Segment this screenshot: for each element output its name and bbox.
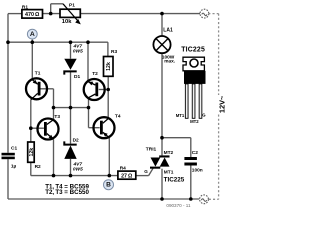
svg-text:R2: R2 (35, 164, 41, 170)
svg-text:1µ: 1µ (11, 164, 17, 170)
svg-text:0W5: 0W5 (73, 48, 83, 54)
svg-text:T3: T3 (54, 114, 60, 120)
svg-text:090370 - 11: 090370 - 11 (166, 203, 191, 208)
svg-text:MT1: MT1 (176, 113, 185, 118)
svg-text:R3: R3 (111, 49, 117, 55)
svg-text:R4: R4 (120, 165, 126, 171)
svg-text:G: G (144, 169, 148, 174)
svg-text:D2: D2 (73, 137, 79, 143)
svg-text:A: A (30, 31, 35, 38)
svg-text:C1: C1 (11, 145, 17, 151)
svg-text:T1: T1 (35, 71, 41, 77)
svg-text:470 Ω: 470 Ω (25, 12, 40, 18)
svg-text:T2: T2 (92, 71, 98, 77)
svg-text:0W5: 0W5 (73, 166, 83, 172)
svg-text:MT1: MT1 (164, 170, 174, 176)
svg-text:T4: T4 (115, 114, 121, 120)
svg-text:D1: D1 (74, 74, 80, 80)
svg-text:12k: 12k (29, 148, 35, 157)
svg-text:MT2: MT2 (190, 119, 199, 124)
svg-text:TIC225: TIC225 (164, 177, 185, 184)
svg-text:100n: 100n (192, 168, 203, 174)
svg-text:LA1: LA1 (163, 28, 173, 34)
svg-text:TRI1: TRI1 (146, 146, 157, 152)
svg-text:C2: C2 (192, 150, 198, 156)
svg-text:27 Ω: 27 Ω (121, 174, 133, 180)
svg-text:P1: P1 (69, 3, 75, 9)
svg-text:4V7: 4V7 (73, 43, 83, 49)
svg-text:T2, T3 = BC550: T2, T3 = BC550 (45, 189, 89, 196)
svg-text:10k: 10k (62, 19, 72, 25)
svg-text:12V~: 12V~ (217, 95, 226, 113)
svg-text:R1: R1 (22, 4, 28, 10)
svg-text:12k: 12k (106, 62, 112, 71)
svg-text:MT2: MT2 (164, 150, 174, 156)
svg-text:max.: max. (164, 60, 175, 65)
svg-text:TIC225: TIC225 (181, 46, 205, 53)
svg-text:B: B (106, 181, 111, 188)
